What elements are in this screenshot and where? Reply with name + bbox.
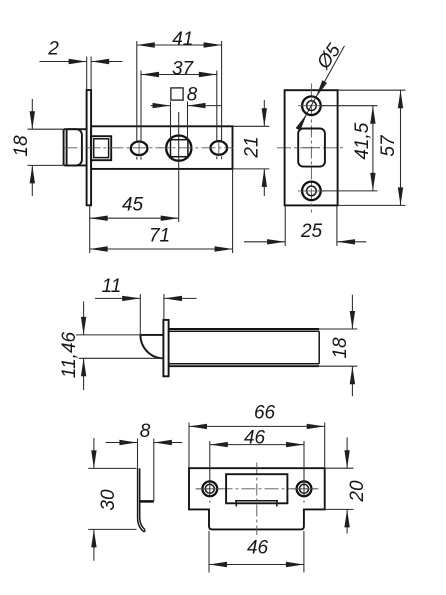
top screw hole bbox=[298, 96, 325, 115]
dimension 46 screw spacing bbox=[210, 428, 304, 497]
bolt tail block bbox=[91, 136, 111, 160]
strike horizontal centerline bbox=[196, 488, 319, 490]
svg-text:71: 71 bbox=[149, 226, 170, 247]
horizontal centerline bbox=[63, 147, 343, 149]
dimension 71 body length bbox=[90, 169, 233, 253]
bottom screw hole bbox=[298, 182, 325, 201]
dimension 11 bolt protrusion bbox=[95, 276, 197, 335]
dimension 11.46 bolt tip height bbox=[59, 302, 163, 391]
bolt bar outer edges bbox=[169, 329, 358, 366]
svg-text:46: 46 bbox=[247, 538, 269, 559]
strike left screw hole bbox=[197, 481, 224, 502]
faceplate front outline bbox=[285, 90, 338, 205]
strike vertical centerline bbox=[256, 463, 258, 536]
svg-text:11,46: 11,46 bbox=[59, 332, 80, 379]
dimension 41 hole span bbox=[137, 29, 222, 142]
strike box side edge bbox=[153, 439, 155, 502]
svg-text:30: 30 bbox=[98, 489, 119, 511]
svg-text:18: 18 bbox=[11, 135, 32, 157]
svg-text:41: 41 bbox=[172, 29, 193, 50]
latch opening center cross bbox=[303, 147, 320, 149]
dimension 46 strike bottom width bbox=[209, 531, 304, 572]
strike opening ledge bbox=[235, 501, 278, 507]
dimension 18 bolt height bbox=[11, 99, 63, 196]
dimension 37 hole span bbox=[141, 59, 217, 142]
faceplate side view bbox=[87, 90, 92, 205]
latch bolt head side view bbox=[64, 129, 87, 165]
latch opening rounded rect bbox=[298, 129, 325, 167]
right oval hole centerline tick bbox=[218, 141, 220, 154]
diameter 5 leader bbox=[296, 40, 346, 131]
dimension 66 strike width bbox=[189, 403, 325, 468]
dimension 20 strike top height bbox=[325, 437, 368, 533]
dimension 18 bar height bbox=[330, 295, 355, 397]
vertical centerline spindle hole bbox=[178, 112, 180, 222]
right oval screw hole bbox=[211, 141, 228, 155]
svg-text:8: 8 bbox=[187, 84, 198, 105]
spindle hole circle bbox=[166, 136, 191, 161]
svg-text:46: 46 bbox=[244, 428, 266, 449]
svg-text:11: 11 bbox=[102, 276, 122, 297]
dimension 2 faceplate thickness bbox=[40, 39, 123, 90]
svg-text:18: 18 bbox=[330, 337, 351, 359]
left oval hole centerline tick bbox=[138, 142, 140, 155]
strike right screw hole bbox=[291, 481, 318, 502]
bolt flange bbox=[163, 320, 168, 376]
svg-text:8: 8 bbox=[140, 421, 151, 442]
svg-text:2: 2 bbox=[47, 39, 59, 60]
strike latch opening bbox=[226, 474, 287, 503]
dimension 41.5 hole spacing bbox=[322, 106, 378, 191]
svg-text:25: 25 bbox=[300, 221, 323, 242]
svg-text:45: 45 bbox=[122, 194, 144, 215]
dimension 45 backset bbox=[90, 194, 179, 253]
strike plate side profile bbox=[138, 468, 146, 532]
svg-text:37: 37 bbox=[172, 59, 195, 80]
svg-text:Ø5: Ø5 bbox=[313, 40, 346, 74]
strike plate front outline bbox=[189, 468, 325, 529]
faceplate vertical centerline bbox=[310, 84, 312, 213]
svg-text:41,5: 41,5 bbox=[352, 122, 373, 159]
bolt tip profile bbox=[140, 335, 163, 358]
dimension 57 plate height bbox=[338, 90, 406, 205]
bolt bar inner box bbox=[169, 331, 320, 364]
dash marks below left oval hole bbox=[137, 157, 141, 160]
dimension 25 plate width bbox=[244, 206, 366, 247]
dimension 8 strike depth bbox=[106, 421, 183, 468]
dimension 30 strike height bbox=[88, 438, 136, 561]
strike box lip bbox=[140, 500, 154, 503]
spindle square hole bbox=[171, 140, 188, 157]
latch body outline bbox=[91, 126, 232, 169]
dimension 21 body height bbox=[233, 100, 270, 196]
svg-text:21: 21 bbox=[241, 136, 262, 158]
svg-text:20: 20 bbox=[347, 480, 368, 503]
dash marks below right oval hole bbox=[217, 156, 222, 159]
svg-text:66: 66 bbox=[254, 403, 276, 424]
left oval screw hole bbox=[131, 142, 148, 156]
svg-text:57: 57 bbox=[378, 134, 399, 157]
dimension square 8 spindle bbox=[151, 84, 222, 139]
